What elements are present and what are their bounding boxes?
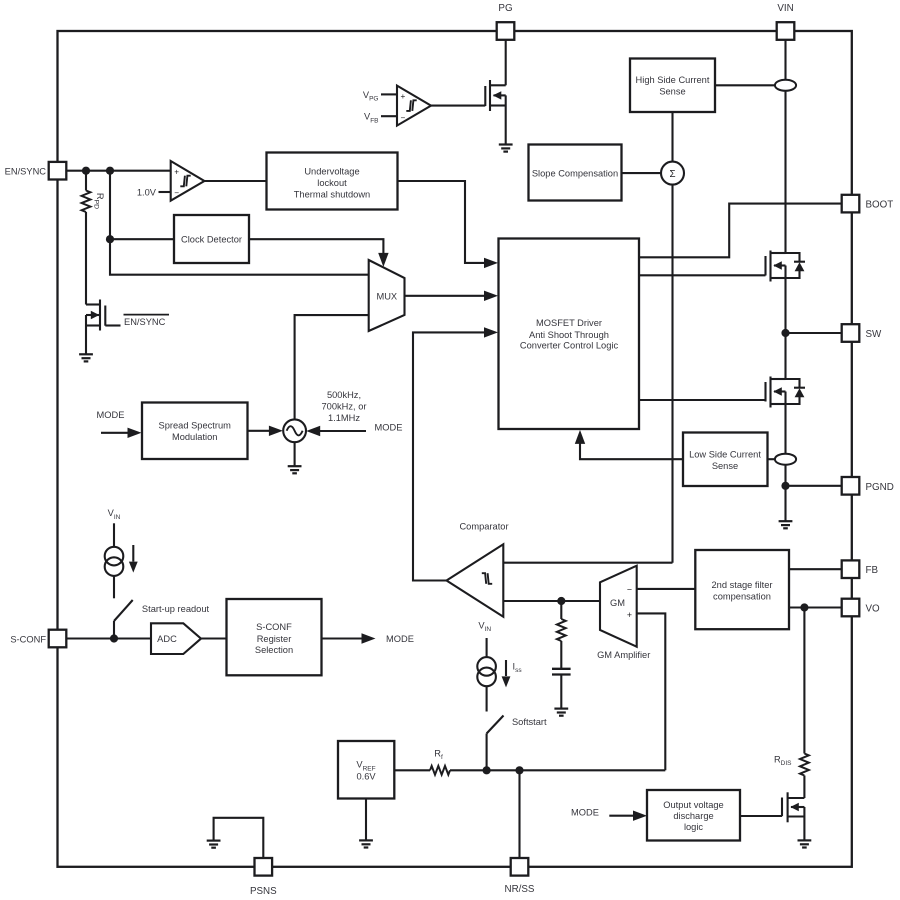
wire VIN to softstart current source [486,638,488,657]
wire C-comp to ground [560,675,562,709]
mux MUX [369,260,405,331]
transistor Q-EN (EN/SYNC pulldown NMOS) [86,300,121,331]
svg-text:1.1MHz: 1.1MHz [328,413,360,423]
svg-text:BOOT: BOOT [866,200,894,211]
wire driver to Q-LS gate [639,399,766,401]
svg-text:MODE: MODE [386,634,414,644]
svg-text:+: + [401,92,406,101]
svg-text:−: − [401,113,406,122]
adder sigma [661,162,684,185]
node EN/SYNC junction B [106,167,114,175]
svg-text:0.6V: 0.6V [356,771,376,781]
wire driver to Q-HS gate [639,274,766,276]
svg-text:compensation: compensation [713,591,771,601]
block VREF 0.6V [338,741,394,799]
label Rf [434,749,443,762]
pin S-CONF [10,630,66,648]
svg-text:1.0V: 1.0V [137,187,157,197]
svg-text:Σ: Σ [669,169,675,180]
transistor Q-PG (power good open-drain NMOS) [485,80,505,111]
pin VO [842,599,880,617]
current sense loop (high side) [775,80,796,91]
label 1.0V [137,187,157,197]
wire PGND junction to PGND pin [786,485,842,487]
transistor Q-HS (high side NMOS) [766,251,786,282]
node NR/SS junction [515,766,523,774]
ground below oscillator [288,466,302,473]
resistor RDIS [800,754,809,776]
current source I-startup [105,547,124,576]
comparator U-PG (power good, schmitt) [397,86,431,126]
wire Slope Compensation to sigma adder [622,172,662,174]
wire MODE arrow into oscillator [306,426,366,436]
ground below C-comp [554,709,568,716]
ground below Q-EN [79,354,93,361]
svg-text:S-CONF: S-CONF [10,635,46,645]
wire High Side sense to VIN rail sense loop [715,84,775,86]
node PGND junction [781,482,789,490]
ground below PGND junction [779,521,793,528]
gm amplifier GM [600,566,637,647]
switch Softstart [487,716,504,734]
wire tap to Clock Detector input [110,238,174,240]
label VIN (startup current source) [108,508,121,521]
wire 1.0V ref to comparator - input [159,191,171,193]
wire VO junction down to RDIS [803,608,805,754]
wire S-CONF pin to ADC [67,637,152,639]
wire VIN to startup current source [113,523,115,547]
transistor Q-LS (low side NMOS) [766,377,786,408]
svg-text:Slope Compensation: Slope Compensation [532,168,618,178]
svg-text:Output voltage: Output voltage [663,800,723,810]
wire VREF to ground [365,799,367,841]
resistor R-comp lead [560,601,562,619]
svg-text:GM: GM [610,598,625,608]
wire softstart current source to switch [486,686,488,711]
svg-text:MOSFET Driver: MOSFET Driver [536,318,602,328]
wire NR/SS node rail [450,769,665,771]
svg-text:VIN: VIN [777,3,793,14]
svg-text:Converter Control Logic: Converter Control Logic [520,341,619,351]
transistor Q-DIS (output discharge NMOS) [782,792,804,822]
pin PGND [842,477,894,495]
block Undervoltage lockout / Thermal shutdown [267,153,398,210]
svg-text:Start-up readout: Start-up readout [142,604,210,614]
svg-text:EN/SYNC: EN/SYNC [5,167,47,177]
svg-text:Spread Spectrum: Spread Spectrum [159,421,232,431]
resistor R-comp [557,619,566,641]
node softstart junction [483,766,491,774]
label Start-up readout [142,604,210,614]
current source I-ss [477,657,496,686]
wire GM + down to NR/SS node [637,613,666,770]
wire UVLO out to driver block [398,181,499,268]
wire comparator out up to driver block [413,327,498,580]
ground below Q-DIS [798,840,812,847]
svg-text:Clock Detector: Clock Detector [181,235,242,245]
wire MODE arrow into discharge block [609,811,647,821]
wire VPG input stub [381,93,397,95]
wire junction B down to MUX input [110,171,369,275]
label MODE (spread spectrum input) [97,410,125,420]
node S-CONF junction [110,634,118,642]
pin FB [842,560,879,578]
svg-text:lockout: lockout [317,178,347,188]
wire PSNS pin to ground [214,818,264,858]
pin NR/SS [505,858,535,895]
svg-text:Selection: Selection [255,645,293,655]
node SW junction [781,329,789,337]
label 500kHz 700kHz or 1.1MHz [322,390,367,423]
label RDIS [774,754,792,767]
svg-text:−: − [627,585,632,595]
block Clock Detector [174,215,249,263]
wire RPD to Q-EN drain rail [85,212,87,354]
svg-text:Low Side Current: Low Side Current [689,449,761,459]
wire Low Side sense box to sense loop [768,458,775,460]
node VO junction [800,603,808,611]
pin EN/SYNC [5,162,67,180]
wire oscillator to ground [294,442,296,466]
current sense loop (low side) [775,454,796,465]
svg-text:MODE: MODE [97,410,125,420]
label Comparator [459,521,508,531]
node compensation tap [557,597,565,605]
pin SW [842,324,882,342]
label EN/SYNC-bar (gate signal) [124,315,170,328]
svg-text:MODE: MODE [571,807,599,817]
label VPG [363,90,379,103]
block Spread Spectrum Modulation [142,403,248,460]
label MODE (discharge input) [571,807,599,817]
svg-text:High Side Current: High Side Current [636,75,710,85]
body diode of Q-LS [786,379,806,404]
oscillator (sine source) [283,419,306,442]
label MODE (register output) [386,634,414,644]
label VFB [364,112,379,125]
svg-text:Softstart: Softstart [512,717,547,727]
wire PG pin down to Q-PG drain [505,40,507,144]
svg-text:ADC: ADC [157,634,177,644]
wire 2nd stage filter to VO pin [789,606,842,608]
wire Q-DIS source to ground [803,817,805,841]
svg-text:PG: PG [498,3,512,14]
node EN/SYNC junction A [82,167,90,175]
svg-text:Comparator: Comparator [459,521,508,531]
wire VIN rail (drain chain) [784,40,786,521]
svg-text:PSNS: PSNS [250,886,277,897]
wire EN/SYNC pin to 1.0V comparator + input [67,170,171,172]
wire 2nd stage filter to FB pin [789,568,842,570]
label MODE (frequency select) [375,423,403,433]
block Low Side Current Sense [683,433,768,487]
block MOSFET Driver / Anti Shoot Through / Converter Control Logic [499,239,640,430]
svg-text:SW: SW [866,329,883,340]
svg-text:FB: FB [866,565,879,576]
wire oscillator to MUX input [295,315,369,419]
wire sigma adder down to comparator input [671,185,673,563]
label Iss [513,661,523,674]
svg-text:Sense: Sense [712,461,738,471]
wire VFB input stub [381,115,397,117]
svg-text:NR/SS: NR/SS [505,884,535,895]
resistor Rf [430,766,450,775]
wire driver to BOOT pin [639,204,842,258]
svg-text:PGND: PGND [866,482,894,493]
svg-text:VO: VO [866,604,881,615]
label VIN (softstart current source) [478,620,491,633]
node clock-detector tap [106,235,114,243]
svg-text:2nd stage filter: 2nd stage filter [712,580,773,590]
wire Clock Detector out to MUX select [249,239,389,267]
svg-text:S-CONF: S-CONF [256,622,292,632]
comparator U-PWM (PWM comparator) [447,544,504,616]
block 2nd stage filter compensation [695,550,789,629]
wire comparator out to UVLO block [204,180,266,182]
wire R-comp to C-comp [560,641,562,669]
adc ADC [151,623,201,654]
arrow startup current direction [129,545,138,573]
pin PSNS [250,858,277,897]
ground below VREF [359,840,373,847]
svg-text:700kHz, or: 700kHz, or [322,402,367,412]
label Softstart [512,717,547,727]
wire MODE arrow into Spread Spectrum block [101,428,142,438]
wire RDIS to Q-DIS drain [803,776,805,817]
pin VIN [777,3,795,40]
wire Spread Spectrum out to oscillator [248,426,283,436]
svg-text:MODE: MODE [375,423,403,433]
svg-text:logic: logic [684,822,703,832]
wire ADC to S-CONF register block [201,637,227,639]
comparator U-EN (EN threshold, schmitt) [171,161,205,201]
wire High Side sense to sigma adder [671,112,673,162]
wire MUX out to driver block [405,291,499,301]
wire PG comparator out to Q-PG gate [431,105,485,107]
label GM Amplifier [597,650,650,660]
svg-text:Register: Register [257,634,292,644]
wire SW junction to SW pin [786,332,842,334]
svg-text:MUX: MUX [376,292,397,302]
block High Side Current Sense [630,59,715,113]
wire NR/SS junction down to NR/SS pin [518,770,520,858]
block S-CONF Register Selection [227,599,322,675]
svg-text:+: + [627,610,632,620]
ground at PSNS [207,841,221,848]
ground below Q-PG [499,145,513,152]
wire current source to startup switch [113,576,115,598]
capacitor C-comp [552,669,571,675]
svg-text:Anti Shoot Through: Anti Shoot Through [529,330,609,340]
wire softstart switch to junction [486,734,488,771]
resistor RPD [82,191,91,213]
arrow Iss current direction [502,660,511,687]
wire sigma line to comparator top input [503,562,672,564]
label RPD [92,193,105,209]
wire S-CONF register out to MODE [322,633,376,643]
wire comparator bottom input to GM output [503,600,600,602]
wire Low Side sense to driver block [575,430,683,459]
resistor RPD lead [85,171,87,191]
svg-text:GM Amplifier: GM Amplifier [597,650,650,660]
svg-text:EN/SYNC: EN/SYNC [124,317,166,327]
block Output voltage discharge logic [647,790,740,841]
pin BOOT [842,195,894,213]
svg-text:Undervoltage: Undervoltage [304,167,359,177]
body diode of Q-HS [786,253,806,278]
switch Start-up readout [114,600,133,639]
svg-text:discharge: discharge [673,811,713,821]
svg-text:+: + [174,167,179,176]
wire VREF to Rf [394,769,430,771]
svg-text:500kHz,: 500kHz, [327,390,361,400]
wire GM - to 2nd stage filter [637,588,696,590]
wire discharge logic to Q-DIS gate [740,815,782,817]
block Slope Compensation [529,145,622,201]
svg-text:Sense: Sense [659,86,685,96]
svg-text:−: − [174,189,179,198]
svg-text:Thermal shutdown: Thermal shutdown [294,190,370,200]
svg-text:Modulation: Modulation [172,432,217,442]
pin PG [497,3,515,40]
